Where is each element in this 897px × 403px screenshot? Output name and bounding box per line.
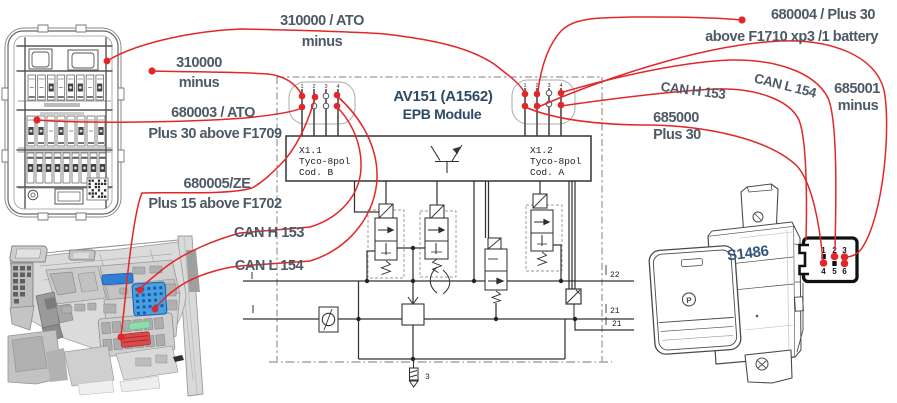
- svg-text:X1.2: X1.2: [530, 145, 553, 156]
- svg-text:680005/ZE: 680005/ZE: [184, 176, 252, 192]
- svg-text:Plus 30: Plus 30: [653, 127, 701, 143]
- svg-text:2: 2: [312, 84, 315, 90]
- svg-text:CAN L 154: CAN L 154: [235, 258, 304, 274]
- svg-text:6: 6: [842, 267, 847, 276]
- svg-text:Tyco-8pol: Tyco-8pol: [299, 156, 351, 167]
- svg-text:21: 21: [612, 320, 622, 329]
- svg-text:Plus 15 above F1702: Plus 15 above F1702: [148, 196, 282, 212]
- svg-text:5: 5: [832, 267, 837, 276]
- svg-text:3: 3: [324, 84, 327, 90]
- svg-text:Plus 30 above F1709: Plus 30 above F1709: [148, 126, 282, 142]
- svg-text:4: 4: [336, 84, 339, 90]
- svg-text:minus: minus: [838, 98, 879, 114]
- svg-text:3: 3: [425, 373, 430, 382]
- svg-text:680004 / Plus 30: 680004 / Plus 30: [771, 7, 875, 23]
- svg-text:1: 1: [523, 83, 526, 89]
- svg-text:minus: minus: [302, 34, 343, 50]
- svg-text:AV151 (A1562): AV151 (A1562): [393, 88, 493, 105]
- svg-text:Cod. B: Cod. B: [299, 167, 334, 178]
- svg-text:4: 4: [559, 83, 562, 89]
- svg-text:Tyco-8pol: Tyco-8pol: [530, 156, 582, 167]
- svg-text:685000: 685000: [653, 110, 699, 126]
- svg-text:CAN H 153: CAN H 153: [234, 225, 304, 241]
- svg-text:310000: 310000: [176, 55, 222, 71]
- svg-text:680003 / ATO: 680003 / ATO: [171, 105, 255, 121]
- svg-text:310000 / ATO: 310000 / ATO: [280, 13, 364, 29]
- svg-text:3: 3: [547, 83, 550, 89]
- svg-text:4: 4: [821, 267, 826, 276]
- svg-text:22: 22: [610, 271, 620, 280]
- svg-text:21: 21: [610, 307, 620, 316]
- svg-text:Cod. A: Cod. A: [530, 167, 565, 178]
- svg-text:EPB Module: EPB Module: [403, 106, 482, 122]
- svg-text:X1.1: X1.1: [299, 145, 322, 156]
- svg-text:1: 1: [300, 84, 303, 90]
- svg-text:minus: minus: [179, 75, 220, 91]
- svg-text:685001: 685001: [834, 81, 880, 97]
- svg-text:above F1710 xp3 /1 battery: above F1710 xp3 /1 battery: [705, 29, 878, 45]
